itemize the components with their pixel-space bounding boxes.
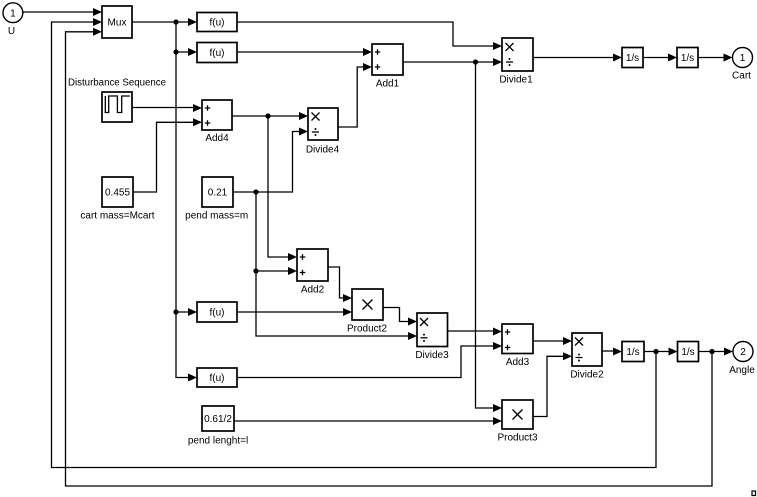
svg-text:Divide1: Divide1 — [499, 75, 533, 86]
svg-text:f(u): f(u) — [210, 308, 225, 319]
svg-text:U: U — [8, 26, 15, 37]
junction Integrator2 output node — [653, 349, 658, 354]
wire node down to Add2 input 2 — [256, 192, 297, 275]
wire Divide1 output to Integrator 1/s — [533, 54, 622, 62]
svg-text:0.61/2: 0.61/2 — [204, 414, 232, 425]
sum Add1 — [372, 44, 403, 75]
svg-text:Divide3: Divide3 — [415, 350, 449, 361]
wire node down to Product3 input 1 — [476, 62, 503, 412]
wire Add1 output to Divide1 input 2 — [403, 58, 502, 66]
sum Add3 — [502, 324, 533, 354]
svg-text:Add4: Add4 — [205, 133, 229, 144]
wire Add2 output to Product2 input 1 — [328, 267, 352, 302]
svg-text:Mux: Mux — [108, 18, 127, 29]
sum Add4 — [202, 100, 232, 130]
wire Integrator3 to outport Angle — [699, 348, 734, 356]
svg-text:1: 1 — [10, 8, 16, 19]
divide Divide3 — [417, 313, 448, 347]
block Pulse Generator (Disturbance Sequence) — [102, 92, 132, 122]
wire node down to Fcn3 f(u) — [176, 312, 197, 382]
svg-text:f(u): f(u) — [210, 18, 225, 29]
block Fcn1 f(u) — [197, 43, 237, 63]
svg-text:Cart: Cart — [732, 71, 751, 82]
junction Add4 output node — [265, 113, 270, 118]
integrator Integrator3 1/s — [678, 342, 699, 362]
svg-text:1/s: 1/s — [626, 347, 639, 358]
junction Add1 output node — [473, 59, 478, 64]
integrator Integrator2 1/s — [622, 342, 644, 362]
sum Add2 — [297, 249, 328, 281]
svg-text:f(u): f(u) — [210, 373, 225, 384]
svg-text:Add3: Add3 — [506, 357, 530, 368]
integrator Integrator 1/s — [622, 48, 643, 68]
outport Angle — [733, 342, 753, 362]
constant 0.61/2 — [202, 406, 234, 431]
junction node at Fcn1 input — [173, 49, 178, 54]
svg-text:Product2: Product2 — [347, 324, 387, 335]
inport U — [3, 3, 23, 23]
wire Pulse Generator to Add4 input 1 — [132, 104, 202, 112]
svg-text:1: 1 — [740, 53, 746, 64]
wire constant 0.61/2 to Product3 input 2 — [234, 417, 502, 425]
wire Integrator to Integrator1 1/s — [643, 54, 677, 62]
wire Mux output to Fcn f(u) — [132, 18, 197, 26]
svg-text:Divide2: Divide2 — [570, 370, 604, 381]
product Product3 — [502, 400, 533, 429]
wire Divide4 output to Add1 input 2 — [338, 63, 372, 127]
wire Integrator1 to outport Cart — [698, 54, 733, 62]
wire feedback Integrator2 node to Mux input 2 — [52, 18, 657, 468]
block Fcn3 f(u) — [197, 368, 237, 387]
wire U to Mux input 1 — [23, 8, 103, 16]
wire Divide2 output to Integrator2 1/s — [602, 348, 622, 356]
product Product2 — [352, 289, 383, 320]
mux Mux — [102, 6, 132, 38]
wire Fcn1 output to Add1 input 1 — [237, 48, 372, 56]
wire node down to Add2 input 1 — [268, 116, 297, 261]
wire Divide3 output to Add3 input 1 — [448, 328, 503, 336]
svg-text:pend mass=m: pend mass=m — [185, 211, 248, 222]
wire Add3 output to Divide2 input 1 — [533, 337, 572, 345]
junction Integrator3 output node — [709, 349, 714, 354]
wire Fcn2 output to Product2 input 2 — [237, 308, 352, 316]
divide Divide1 — [502, 38, 533, 71]
block Fcn2 f(u) — [197, 302, 237, 322]
wire feedback Integrator3 node to Mux input 3 — [66, 28, 713, 486]
integrator Integrator1 1/s — [677, 48, 698, 68]
divide Divide4 — [308, 108, 338, 140]
wire constant 0.21 to Divide4 input 2 — [233, 128, 308, 193]
svg-text:Product3: Product3 — [497, 433, 537, 444]
svg-text:cart mass=Mcart: cart mass=Mcart — [80, 211, 154, 222]
divide Divide2 — [572, 333, 602, 366]
svg-text:Angle: Angle — [729, 365, 755, 376]
svg-text:f(u): f(u) — [210, 48, 225, 59]
wire constant 0.455 to Add4 input 2 — [133, 118, 202, 192]
outport Cart — [733, 48, 753, 68]
svg-text:Divide4: Divide4 — [306, 145, 340, 156]
svg-text:1/s: 1/s — [626, 53, 639, 64]
wire Fcn3 output to Add3 input 2 — [237, 342, 502, 378]
svg-text:Add1: Add1 — [376, 79, 400, 90]
constant 0.455 — [102, 177, 133, 207]
junction node at Fcn2 input — [173, 309, 178, 314]
wire Product2 output to Divide3 input 1 — [383, 308, 417, 326]
wire node down to Divide3 input 2 — [256, 271, 417, 340]
junction node at Add2 input — [253, 268, 258, 273]
svg-text:Add2: Add2 — [301, 285, 325, 296]
svg-text:1/s: 1/s — [681, 347, 694, 358]
junction Mux output node — [173, 19, 178, 24]
svg-text:1/s: 1/s — [681, 53, 694, 64]
svg-text:2: 2 — [740, 347, 746, 358]
wire Integrator2 to Integrator3 1/s — [644, 348, 678, 356]
constant 0.21 — [202, 177, 233, 207]
wire Fcn output to Divide1 input 1 — [237, 22, 502, 50]
svg-text:Disturbance Sequence: Disturbance Sequence — [68, 78, 166, 89]
svg-text:0.21: 0.21 — [208, 188, 228, 199]
block Fcn f(u) — [197, 13, 237, 32]
annotation marker square — [752, 491, 756, 496]
svg-text:pend lenght=l: pend lenght=l — [188, 436, 248, 447]
wire Add4 output to Divide4 input 1 — [232, 112, 308, 120]
wire node down to Fcn2 f(u) — [176, 52, 197, 316]
wire node to Fcn1 f(u) — [176, 22, 197, 56]
svg-text:0.455: 0.455 — [105, 188, 130, 199]
junction 0.21 output node — [253, 189, 258, 194]
wire Product3 output to Divide2 input 2 — [533, 352, 572, 416]
